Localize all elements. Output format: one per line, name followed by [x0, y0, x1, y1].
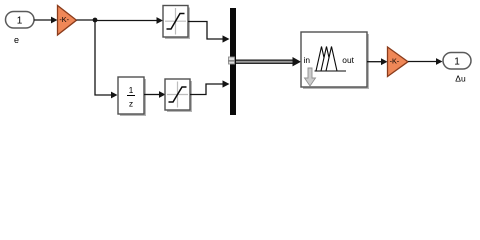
- fuzzy logic controller block: [301, 32, 369, 89]
- svg-text:z: z: [129, 99, 133, 109]
- svg-text:e: e: [14, 35, 19, 45]
- wire fuzzy controller to gain K2: [367, 61, 382, 63]
- vector signal line mux to fuzzy controller: [236, 57, 301, 66]
- inport 1 (e): [6, 12, 35, 29]
- svg-text:-K-: -K-: [59, 15, 69, 24]
- outport 1 (du): [443, 53, 471, 70]
- mux: [230, 8, 236, 115]
- svg-text:in: in: [304, 55, 311, 65]
- wire inport to gain K1: [34, 19, 52, 21]
- svg-text:1: 1: [129, 85, 134, 95]
- wire gain K1 to branch: [77, 19, 96, 21]
- gain K1 (-K-): [58, 6, 77, 36]
- saturation 2: [165, 79, 192, 112]
- svg-text:Δu: Δu: [455, 73, 466, 83]
- grey down arrow badge: [305, 68, 316, 86]
- svg-text:1: 1: [17, 15, 23, 26]
- wire unit delay to saturation 2: [144, 94, 160, 96]
- gain K2 (-K-): [388, 47, 409, 77]
- membership function triangles: [316, 47, 327, 72]
- wire gain K2 to outport: [408, 61, 437, 63]
- junction node: [93, 18, 98, 23]
- svg-text:out: out: [342, 55, 354, 65]
- mux output anchor tag: [229, 57, 235, 64]
- wire branch to saturation 1: [95, 20, 158, 22]
- unit delay 1/z: [118, 77, 146, 116]
- wire saturation 1 to mux input 1: [188, 22, 224, 40]
- svg-text:-K-: -K-: [390, 57, 400, 66]
- svg-text:1: 1: [454, 56, 460, 67]
- wire branch down to unit delay: [95, 20, 112, 95]
- wire saturation 2 to mux input 2: [190, 84, 224, 95]
- saturation 1: [163, 6, 190, 40]
